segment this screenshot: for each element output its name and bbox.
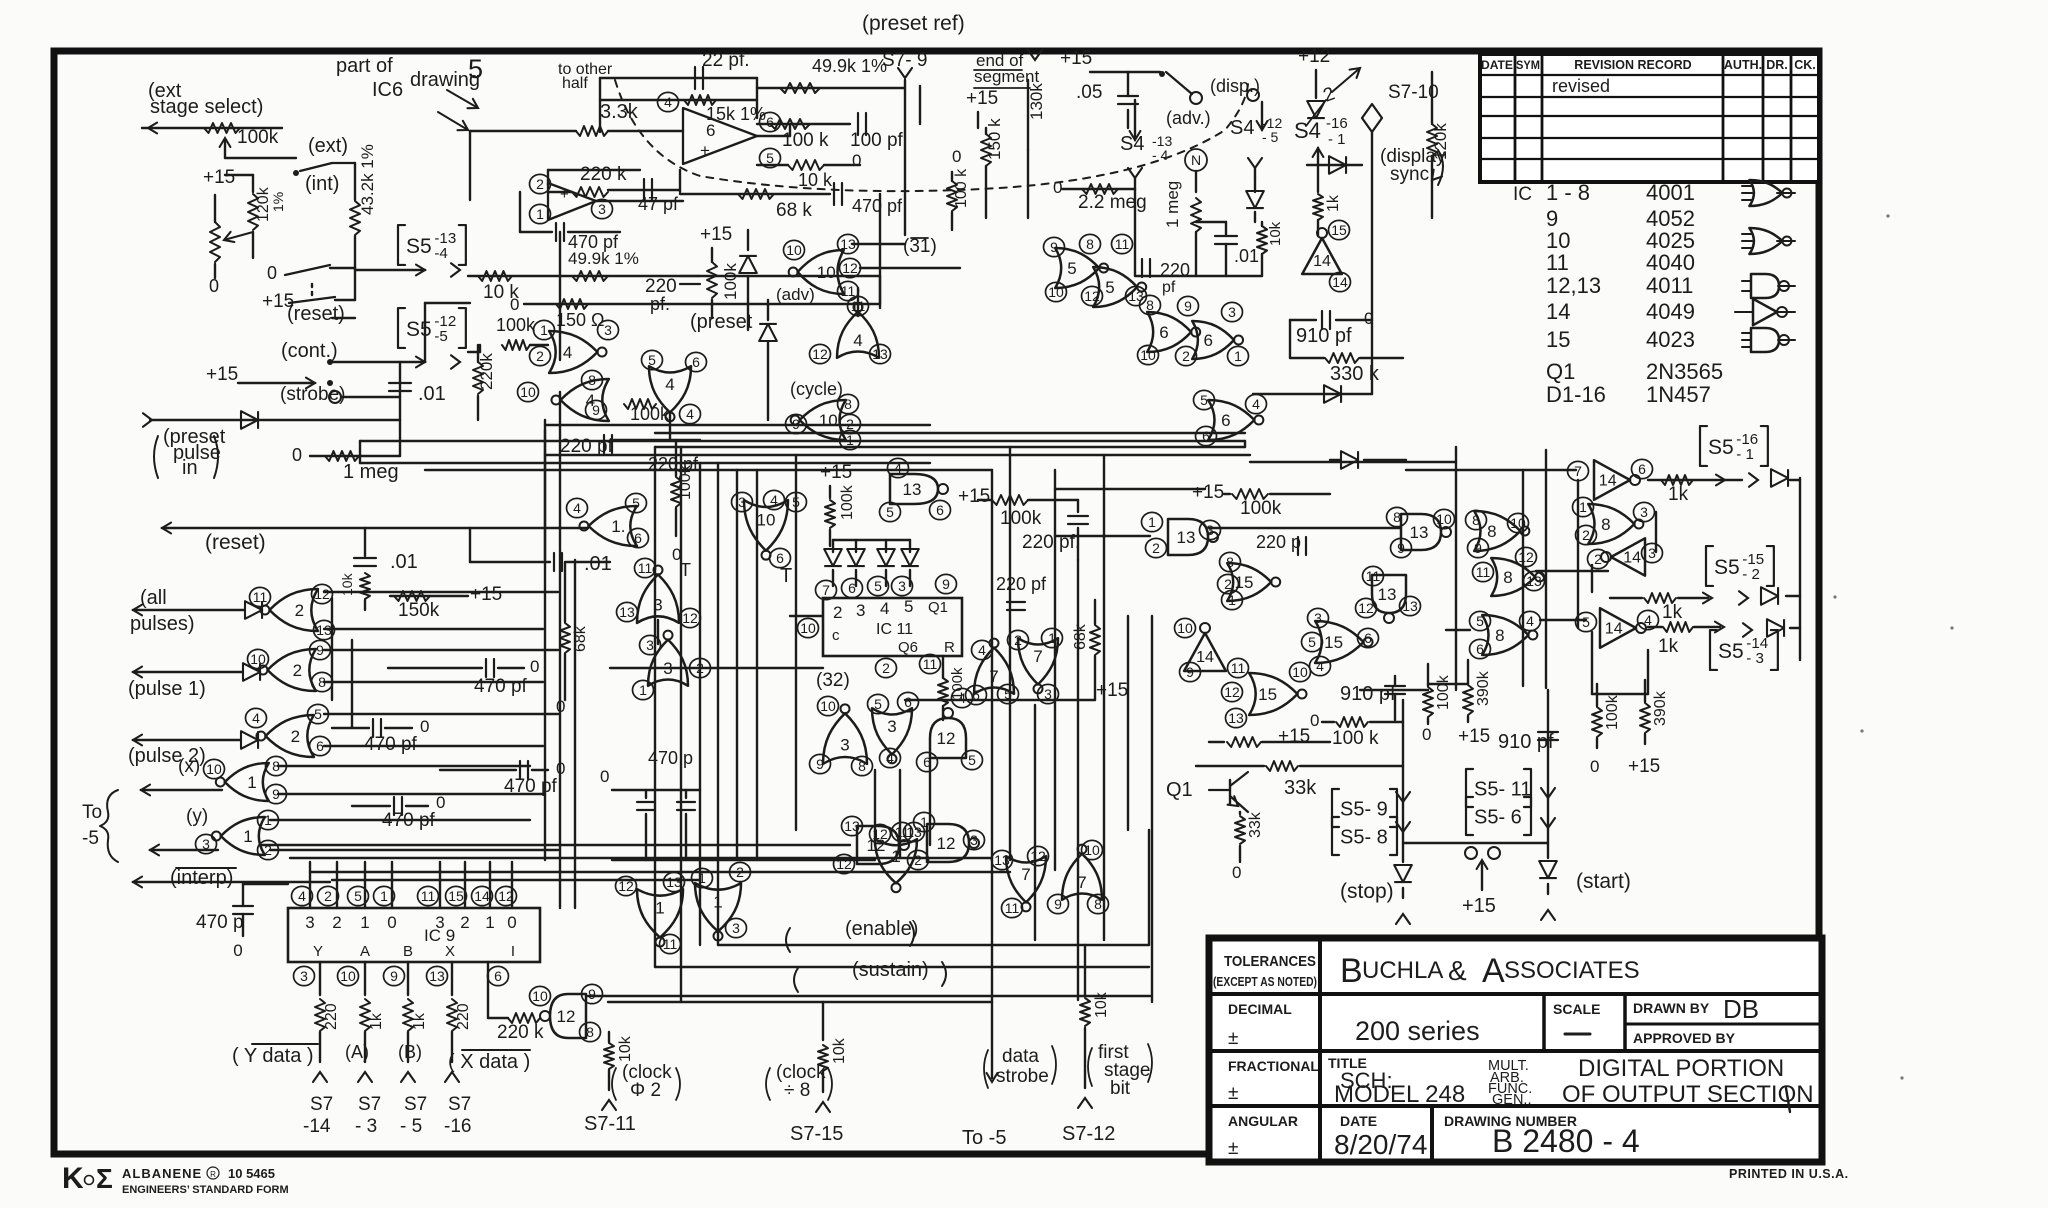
svg-text:4: 4 xyxy=(573,500,581,516)
svg-text:3: 3 xyxy=(856,601,865,620)
svg-text:10: 10 xyxy=(786,242,802,258)
svg-text:IC 11: IC 11 xyxy=(876,621,913,638)
svg-text:ENGINEERS’ STANDARD FORM: ENGINEERS’ STANDARD FORM xyxy=(122,1184,289,1196)
svg-text:T: T xyxy=(780,565,792,587)
svg-text:DATE: DATE xyxy=(1340,1113,1377,1129)
svg-text:Q6: Q6 xyxy=(898,639,918,656)
svg-text:8: 8 xyxy=(1601,515,1610,534)
svg-text:12: 12 xyxy=(1224,684,1240,700)
svg-text:÷ 8: ÷ 8 xyxy=(784,1080,810,1101)
svg-text:0: 0 xyxy=(510,295,519,314)
svg-text:TOLERANCES: TOLERANCES xyxy=(1224,953,1316,970)
svg-text:10: 10 xyxy=(1084,842,1100,858)
svg-text:S7: S7 xyxy=(310,1094,333,1115)
svg-text:5: 5 xyxy=(468,54,483,84)
svg-text:+15: +15 xyxy=(1458,726,1490,747)
svg-text:2: 2 xyxy=(833,603,842,622)
svg-text:100k: 100k xyxy=(1000,508,1042,529)
svg-text:+15: +15 xyxy=(1192,482,1224,503)
svg-text:9: 9 xyxy=(1050,239,1058,255)
svg-text:14: 14 xyxy=(474,888,490,904)
svg-text:220k: 220k xyxy=(477,353,496,390)
svg-text:14: 14 xyxy=(1196,649,1214,666)
svg-text:2: 2 xyxy=(536,176,544,192)
svg-text:6: 6 xyxy=(1221,411,1230,430)
svg-text:3: 3 xyxy=(300,968,308,984)
svg-text:10: 10 xyxy=(250,651,266,667)
svg-text:11: 11 xyxy=(1231,660,1246,676)
svg-text:2: 2 xyxy=(332,913,341,932)
svg-text:4: 4 xyxy=(1252,396,1260,412)
svg-text:.01: .01 xyxy=(418,383,446,405)
svg-text:14: 14 xyxy=(1332,274,1348,290)
svg-text:+15: +15 xyxy=(700,224,732,245)
svg-text:.05: .05 xyxy=(1076,82,1102,103)
svg-text:0: 0 xyxy=(1053,178,1062,197)
svg-text:5: 5 xyxy=(314,706,322,722)
svg-text:3: 3 xyxy=(598,201,606,217)
svg-text:6: 6 xyxy=(1476,641,1484,657)
svg-text:K: K xyxy=(62,1162,84,1195)
svg-text:4: 4 xyxy=(298,888,306,904)
svg-text:6: 6 xyxy=(1203,331,1212,350)
svg-text:8: 8 xyxy=(588,372,596,388)
svg-text:11: 11 xyxy=(1005,900,1020,916)
svg-text:1k: 1k xyxy=(1658,636,1679,657)
svg-text:100k: 100k xyxy=(839,484,856,520)
svg-text:(31): (31) xyxy=(903,236,937,257)
svg-text:390k: 390k xyxy=(1475,670,1492,706)
svg-text:S4: S4 xyxy=(1230,117,1254,139)
svg-text:4: 4 xyxy=(880,599,889,618)
svg-text:8: 8 xyxy=(858,758,866,774)
svg-text:0: 0 xyxy=(952,147,961,166)
svg-text:S5: S5 xyxy=(406,318,432,341)
svg-text:0: 0 xyxy=(1310,711,1319,730)
svg-text:+15: +15 xyxy=(206,364,238,385)
svg-text:+: + xyxy=(560,186,569,203)
svg-text:3: 3 xyxy=(1640,504,1648,520)
svg-text:12: 12 xyxy=(842,260,858,276)
svg-text:10: 10 xyxy=(817,263,836,282)
svg-text:data: data xyxy=(1002,1046,1039,1067)
svg-text:470 p: 470 p xyxy=(196,912,244,933)
svg-text:14: 14 xyxy=(1605,621,1623,638)
svg-text:GEN.,: GEN., xyxy=(1492,1092,1531,1108)
svg-text:&: & xyxy=(1448,955,1467,986)
svg-text:S5: S5 xyxy=(1718,640,1744,663)
svg-text:1N457: 1N457 xyxy=(1646,382,1711,407)
svg-text:4023: 4023 xyxy=(1646,327,1695,352)
svg-text:+: + xyxy=(700,141,710,160)
svg-text:4040: 4040 xyxy=(1646,250,1695,275)
svg-text:100k: 100k xyxy=(1604,694,1621,730)
svg-text:4011: 4011 xyxy=(1646,273,1693,298)
svg-text:B: B xyxy=(1340,952,1363,990)
svg-text:2.2 meg: 2.2 meg xyxy=(1078,192,1147,213)
svg-text:B 2480 - 4: B 2480 - 4 xyxy=(1492,1123,1640,1159)
svg-text:+15: +15 xyxy=(1462,895,1496,917)
svg-text:IC 9: IC 9 xyxy=(424,926,455,945)
svg-text:(all: (all xyxy=(140,587,167,609)
svg-text:S7-12: S7-12 xyxy=(1062,1123,1115,1145)
svg-text:Σ: Σ xyxy=(96,1163,113,1194)
svg-text:UCHLA: UCHLA xyxy=(1362,957,1443,984)
svg-text:8: 8 xyxy=(1472,512,1480,528)
svg-text:100 k: 100 k xyxy=(953,168,970,208)
svg-text:2: 2 xyxy=(324,888,332,904)
svg-text:- 2: - 2 xyxy=(1742,566,1760,583)
svg-text:S7: S7 xyxy=(404,1094,427,1115)
svg-text:6: 6 xyxy=(706,121,715,140)
svg-text:470 pf: 470 pf xyxy=(504,776,558,797)
svg-text:220 k: 220 k xyxy=(580,164,627,185)
svg-text:half: half xyxy=(562,75,588,92)
svg-text:S5- 6: S5- 6 xyxy=(1474,807,1522,829)
svg-text:4: 4 xyxy=(1316,658,1324,674)
svg-text:REVISION RECORD: REVISION RECORD xyxy=(1574,58,1691,72)
svg-text:1: 1 xyxy=(655,899,664,918)
svg-text:strobe: strobe xyxy=(996,1066,1049,1087)
svg-text:10: 10 xyxy=(206,761,222,777)
svg-text:3: 3 xyxy=(604,322,612,338)
svg-text:4: 4 xyxy=(886,750,894,766)
svg-text:AUTH.: AUTH. xyxy=(1724,58,1762,72)
svg-text:1: 1 xyxy=(485,913,494,932)
svg-text:+15: +15 xyxy=(958,486,990,507)
svg-text:390k: 390k xyxy=(1652,690,1669,726)
svg-text:±: ± xyxy=(1228,1028,1238,1049)
svg-text:10k: 10k xyxy=(1267,221,1284,246)
svg-text:3: 3 xyxy=(732,920,740,936)
svg-text:13: 13 xyxy=(1228,710,1244,726)
svg-text:9: 9 xyxy=(390,968,398,984)
svg-text:68k: 68k xyxy=(572,625,589,652)
svg-text:S5- 11: S5- 11 xyxy=(1474,779,1531,801)
svg-text:+15: +15 xyxy=(1628,756,1660,777)
svg-text:5: 5 xyxy=(1582,614,1590,630)
svg-text:10 k: 10 k xyxy=(798,170,833,190)
svg-text:R: R xyxy=(944,639,955,656)
svg-text:13: 13 xyxy=(1402,598,1418,614)
svg-text:11: 11 xyxy=(923,656,938,672)
svg-text:S7-15: S7-15 xyxy=(790,1123,843,1145)
svg-text:6: 6 xyxy=(692,354,700,370)
svg-text:1%: 1% xyxy=(270,192,286,212)
svg-text:-14: -14 xyxy=(303,1116,331,1137)
svg-text:7: 7 xyxy=(1033,647,1042,666)
svg-text:(adv.): (adv.) xyxy=(1166,108,1211,128)
svg-text:Q1: Q1 xyxy=(1166,779,1193,801)
svg-text:DR.: DR. xyxy=(1766,58,1788,72)
svg-text:pf.: pf. xyxy=(650,294,670,314)
svg-text:3: 3 xyxy=(970,832,978,848)
svg-text:15: 15 xyxy=(1324,633,1343,652)
svg-text:12,13: 12,13 xyxy=(1546,273,1601,298)
svg-text:10: 10 xyxy=(1140,347,1156,363)
svg-text:S7: S7 xyxy=(358,1094,381,1115)
svg-text:5: 5 xyxy=(632,495,640,511)
svg-text:1: 1 xyxy=(540,322,548,338)
svg-text:(cycle): (cycle) xyxy=(790,379,843,399)
svg-text:Q1: Q1 xyxy=(1546,359,1575,384)
svg-text:OF OUTPUT SECTION: OF OUTPUT SECTION xyxy=(1562,1081,1814,1108)
svg-text:SYM: SYM xyxy=(1516,58,1540,72)
svg-text:- 1: - 1 xyxy=(1328,131,1346,148)
svg-text:2: 2 xyxy=(1152,540,1160,556)
svg-text:S5: S5 xyxy=(1708,436,1734,459)
svg-text:1: 1 xyxy=(1234,348,1242,364)
svg-text:S5: S5 xyxy=(406,235,432,258)
svg-text:8: 8 xyxy=(586,1024,594,1040)
svg-text:1k: 1k xyxy=(1668,484,1689,505)
svg-text:MODEL 248: MODEL 248 xyxy=(1334,1081,1465,1108)
svg-text:2: 2 xyxy=(1594,551,1602,567)
svg-text:0: 0 xyxy=(209,276,219,296)
svg-text:9: 9 xyxy=(942,576,950,592)
svg-text:Y: Y xyxy=(313,943,323,960)
svg-text:5: 5 xyxy=(1200,392,1208,408)
svg-text:220 k: 220 k xyxy=(497,1022,544,1043)
svg-text:S7: S7 xyxy=(448,1094,471,1115)
svg-text:15: 15 xyxy=(448,888,464,904)
svg-text:150k: 150k xyxy=(398,600,440,621)
svg-text:5: 5 xyxy=(766,150,774,166)
svg-text:22 pf.: 22 pf. xyxy=(702,50,750,71)
svg-text:- 1: - 1 xyxy=(1736,446,1754,463)
svg-text:470 pf: 470 pf xyxy=(474,676,528,697)
svg-text:6: 6 xyxy=(766,114,774,130)
svg-text:9: 9 xyxy=(1474,540,1482,556)
svg-text:3: 3 xyxy=(738,494,746,510)
svg-text:0: 0 xyxy=(556,697,565,716)
svg-text:13: 13 xyxy=(906,824,922,840)
svg-text:13: 13 xyxy=(1128,288,1144,304)
svg-text:4: 4 xyxy=(664,94,672,110)
svg-text:100k: 100k xyxy=(1240,498,1282,519)
svg-text:SCALE: SCALE xyxy=(1553,1001,1600,1017)
svg-text:2: 2 xyxy=(1582,527,1590,543)
svg-text:(adv): (adv) xyxy=(776,285,815,304)
svg-text:12: 12 xyxy=(937,834,956,853)
svg-text:470 pf: 470 pf xyxy=(852,196,903,216)
svg-text:(enable): (enable) xyxy=(845,918,918,940)
svg-text:2: 2 xyxy=(293,661,302,680)
svg-text:1.: 1. xyxy=(611,517,625,536)
svg-text:220 p: 220 p xyxy=(1256,532,1301,552)
svg-text:(strobe): (strobe) xyxy=(280,384,345,405)
svg-text:3: 3 xyxy=(305,913,314,932)
svg-text:pulses): pulses) xyxy=(130,613,194,635)
svg-text:0: 0 xyxy=(507,913,516,932)
svg-text:7: 7 xyxy=(822,582,830,598)
svg-text:14: 14 xyxy=(1623,550,1641,567)
svg-text:200 series: 200 series xyxy=(1355,1016,1480,1046)
svg-text:12: 12 xyxy=(557,1007,576,1026)
svg-text:(cont.): (cont.) xyxy=(281,340,338,362)
svg-text:( Y data ): ( Y data ) xyxy=(232,1045,314,1067)
svg-text:910 pf: 910 pf xyxy=(1498,731,1554,753)
svg-text:33k: 33k xyxy=(1247,811,1264,838)
svg-text:7: 7 xyxy=(1021,865,1030,884)
svg-text:13: 13 xyxy=(844,818,860,834)
svg-text:8: 8 xyxy=(1503,568,1512,587)
svg-text:-16: -16 xyxy=(1326,115,1348,132)
svg-text:(start): (start) xyxy=(1576,870,1631,893)
svg-text:5: 5 xyxy=(874,696,882,712)
svg-text:6: 6 xyxy=(494,968,502,984)
svg-text:IC: IC xyxy=(1513,184,1532,205)
svg-text:4: 4 xyxy=(770,492,778,508)
svg-text:- 3: - 3 xyxy=(355,1116,377,1137)
svg-text:-5: -5 xyxy=(82,828,99,849)
svg-text:+15: +15 xyxy=(1060,48,1092,69)
svg-text:10: 10 xyxy=(800,620,816,636)
svg-text:10: 10 xyxy=(340,968,356,984)
svg-text:10: 10 xyxy=(819,411,838,430)
svg-text:49.9k 1%: 49.9k 1% xyxy=(568,249,639,268)
svg-text:part of: part of xyxy=(336,55,393,77)
svg-text:SSOCIATES: SSOCIATES xyxy=(1504,957,1640,984)
svg-text:11: 11 xyxy=(421,888,436,904)
svg-text:10: 10 xyxy=(1292,664,1308,680)
svg-text:9: 9 xyxy=(592,402,600,418)
svg-text:49.9k 1%: 49.9k 1% xyxy=(812,56,887,76)
svg-text:1 meg: 1 meg xyxy=(343,461,399,483)
svg-text:3: 3 xyxy=(646,637,654,653)
svg-text:+12: +12 xyxy=(1298,46,1330,67)
svg-text:8: 8 xyxy=(1487,522,1496,541)
svg-text:11: 11 xyxy=(1366,568,1381,584)
svg-text:12: 12 xyxy=(682,610,698,626)
svg-text:11: 11 xyxy=(1476,564,1491,580)
svg-text:43.2k 1%: 43.2k 1% xyxy=(358,144,377,215)
svg-text:+15: +15 xyxy=(966,88,998,109)
svg-text:S5: S5 xyxy=(1714,556,1740,579)
svg-text:1: 1 xyxy=(1228,592,1236,608)
svg-text:47 pf: 47 pf xyxy=(638,194,679,214)
svg-text:0: 0 xyxy=(292,445,302,465)
svg-text:13: 13 xyxy=(429,968,445,984)
svg-text:15: 15 xyxy=(1546,327,1570,352)
svg-text:S4: S4 xyxy=(1120,133,1144,155)
svg-text:1: 1 xyxy=(536,206,544,222)
svg-text:11: 11 xyxy=(1115,236,1130,252)
svg-text:910 pf: 910 pf xyxy=(1296,325,1352,347)
svg-text:3: 3 xyxy=(202,836,210,852)
svg-text:470 pf: 470 pf xyxy=(382,810,436,831)
svg-text:11: 11 xyxy=(638,560,653,576)
svg-text:4: 4 xyxy=(978,642,986,658)
svg-text:4049: 4049 xyxy=(1646,299,1695,324)
svg-text:8/20/74: 8/20/74 xyxy=(1334,1129,1427,1160)
svg-text:10: 10 xyxy=(820,698,836,714)
svg-text:13: 13 xyxy=(1526,573,1542,589)
svg-text:2: 2 xyxy=(460,913,469,932)
svg-text:5: 5 xyxy=(648,352,656,368)
svg-text:3: 3 xyxy=(898,578,906,594)
svg-text:(interp): (interp) xyxy=(170,867,233,889)
svg-text:D1-16: D1-16 xyxy=(1546,382,1606,407)
svg-text:I: I xyxy=(511,943,515,960)
svg-text:6: 6 xyxy=(1364,630,1372,646)
svg-text:8: 8 xyxy=(1086,236,1094,252)
svg-text:2: 2 xyxy=(1182,348,1190,364)
svg-text:S4: S4 xyxy=(1294,118,1321,143)
svg-text:Q1: Q1 xyxy=(928,599,948,616)
svg-text:Φ 2: Φ 2 xyxy=(630,1080,661,1101)
svg-text:+15: +15 xyxy=(1278,726,1310,747)
svg-text:- 3: - 3 xyxy=(1746,650,1764,667)
svg-text:5: 5 xyxy=(874,578,882,594)
svg-text:3: 3 xyxy=(1314,610,1322,626)
svg-text:To -5: To -5 xyxy=(962,1127,1006,1149)
svg-text:12: 12 xyxy=(1084,288,1100,304)
svg-text:(y): (y) xyxy=(186,806,208,827)
svg-text:10: 10 xyxy=(1177,620,1193,636)
svg-text:.01: .01 xyxy=(390,551,418,573)
svg-text:1: 1 xyxy=(360,913,369,932)
svg-text:4: 4 xyxy=(853,331,862,350)
svg-text:13: 13 xyxy=(994,852,1010,868)
svg-text:2: 2 xyxy=(291,727,300,746)
svg-text:10 5465: 10 5465 xyxy=(228,1166,275,1181)
svg-text:470 pf: 470 pf xyxy=(364,734,418,755)
svg-text:S5- 9: S5- 9 xyxy=(1340,799,1388,821)
svg-text:S7- 9: S7- 9 xyxy=(882,50,927,71)
svg-text:13: 13 xyxy=(1410,523,1429,542)
svg-text:sync: sync xyxy=(1390,164,1429,185)
svg-text:(32): (32) xyxy=(816,670,850,691)
svg-text:-4: -4 xyxy=(434,245,447,262)
svg-text:0: 0 xyxy=(1232,863,1241,882)
svg-text:A: A xyxy=(1482,952,1505,990)
svg-text:pf: pf xyxy=(1162,279,1176,296)
svg-text:0: 0 xyxy=(420,717,429,736)
svg-text:12: 12 xyxy=(937,729,956,748)
svg-text:5: 5 xyxy=(354,888,362,904)
svg-text:±: ± xyxy=(1228,1138,1238,1159)
svg-text:0: 0 xyxy=(387,913,396,932)
svg-text:4: 4 xyxy=(1526,613,1534,629)
svg-text:+15: +15 xyxy=(1096,680,1128,701)
svg-text:910 pf: 910 pf xyxy=(1340,683,1396,705)
svg-text:13: 13 xyxy=(1177,528,1196,547)
svg-text:100 pf: 100 pf xyxy=(850,130,904,151)
svg-text:1 meg: 1 meg xyxy=(1163,181,1182,228)
svg-text:9: 9 xyxy=(588,986,596,1002)
svg-text:( X data ): ( X data ) xyxy=(448,1051,530,1073)
svg-text:12: 12 xyxy=(1518,549,1534,565)
svg-text:0: 0 xyxy=(233,941,242,960)
svg-text:68k: 68k xyxy=(1072,623,1089,650)
svg-text:.01: .01 xyxy=(1234,246,1259,266)
svg-text:220: 220 xyxy=(323,1003,340,1030)
svg-text:2: 2 xyxy=(295,601,304,620)
svg-text:0: 0 xyxy=(267,263,277,283)
svg-text:1 - 8: 1 - 8 xyxy=(1546,180,1590,205)
svg-text:5: 5 xyxy=(1105,278,1114,297)
svg-text:9: 9 xyxy=(1184,298,1192,314)
svg-text:1: 1 xyxy=(639,682,647,698)
svg-text:10: 10 xyxy=(532,988,548,1004)
svg-text:9: 9 xyxy=(1054,896,1062,912)
svg-text:5: 5 xyxy=(1476,613,1484,629)
svg-text:11: 11 xyxy=(1546,250,1569,275)
svg-text:2: 2 xyxy=(1014,632,1022,648)
svg-text:4: 4 xyxy=(958,690,966,706)
svg-text:10: 10 xyxy=(520,384,536,400)
